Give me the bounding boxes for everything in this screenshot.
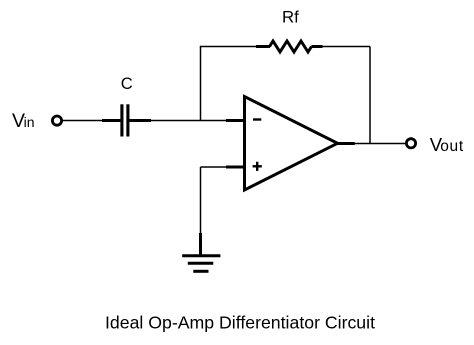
capacitor C	[102, 104, 151, 136]
wire non-inverting input	[201, 166, 245, 168]
svg-text:Ideal Op-Amp Differentiator Ci: Ideal Op-Amp Differentiator Circuit	[105, 312, 375, 332]
op-amp U1	[245, 97, 338, 191]
wire feedback top left segment	[200, 46, 256, 48]
resistor Rf	[256, 41, 323, 52]
wire Vin terminal to capacitor	[63, 120, 121, 122]
ground	[182, 233, 220, 271]
wire capacitor to inverting input (node with feedback)	[151, 120, 244, 122]
wire feedback top right segment	[323, 46, 371, 48]
svg-text:Vout: Vout	[430, 134, 464, 155]
node Vin input terminal	[52, 116, 61, 125]
wire feedback right vertical	[369, 47, 371, 144]
svg-text:C: C	[121, 74, 133, 93]
svg-text:Vin: Vin	[12, 110, 35, 132]
wire feedback left vertical	[200, 47, 202, 121]
wire ground drop from non-inverting input	[200, 167, 202, 237]
wire output from op-amp to Vout terminal	[338, 142, 407, 145]
svg-text:Rf: Rf	[282, 7, 299, 26]
node Vout output terminal	[406, 139, 415, 148]
